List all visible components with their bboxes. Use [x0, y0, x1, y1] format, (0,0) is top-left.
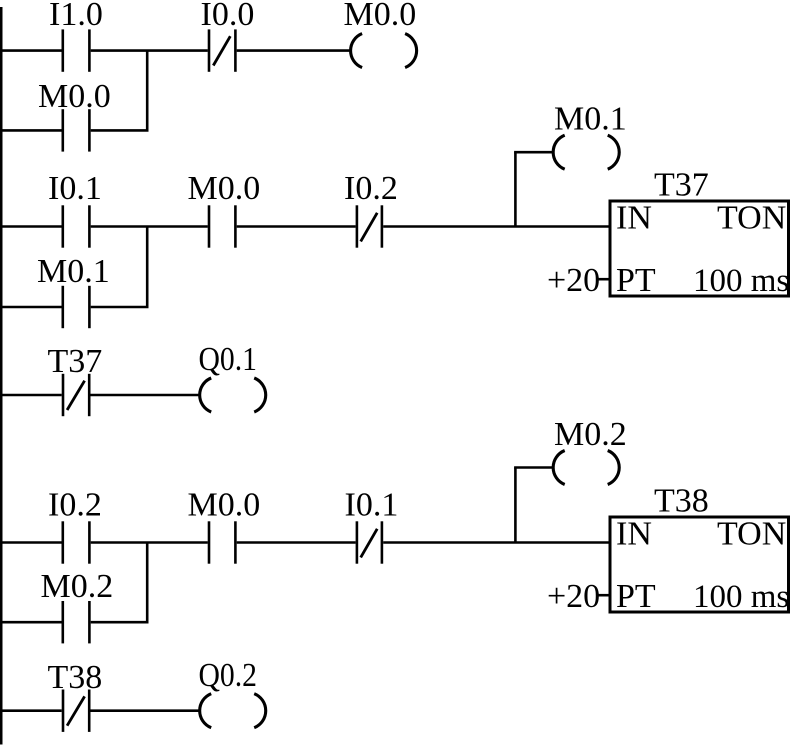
wire rung5 rail to T38: [0, 709, 62, 712]
svg-text:PT: PT: [616, 578, 656, 615]
junction vertical rung1: [146, 51, 149, 131]
svg-text:+20: +20: [547, 262, 600, 299]
coil M0.0: [351, 34, 417, 68]
contact M0.2 branch: [63, 601, 90, 643]
parallel branch wire M0.0: [0, 129, 62, 132]
svg-text:PT: PT: [616, 262, 656, 299]
svg-text:T38: T38: [654, 483, 709, 520]
wire T38 to coil Q0.2: [91, 709, 200, 712]
NC contact T37: [63, 374, 89, 416]
wire I0.0 to coil M0.0: [237, 49, 351, 52]
svg-text:I1.0: I1.0: [49, 0, 103, 33]
svg-text:TON: TON: [717, 516, 786, 553]
svg-text:M0.0: M0.0: [344, 0, 417, 33]
wire M0.1 branch to junction: [91, 306, 149, 309]
wire rung4 rail to I0.2: [0, 541, 62, 544]
svg-text:100 ms: 100 ms: [693, 579, 789, 615]
svg-text:M0.0: M0.0: [188, 170, 261, 207]
svg-text:IN: IN: [616, 200, 652, 237]
junction vertical rung4: [146, 543, 149, 623]
parallel branch wire M0.1: [0, 306, 62, 309]
wire M0.0 to I0.1: [237, 541, 356, 544]
svg-text:M0.2: M0.2: [554, 416, 627, 453]
wire rung3 rail to T37: [0, 394, 62, 397]
wire M0.2 branch to junction: [91, 621, 149, 624]
timer box T37: [610, 201, 789, 296]
wire M0.0 to I0.2: [237, 225, 356, 228]
svg-text:I0.1: I0.1: [345, 487, 399, 524]
svg-text:I0.0: I0.0: [201, 0, 255, 33]
parallel branch wire M0.2: [0, 621, 62, 624]
PT input stub rung4: [598, 594, 611, 597]
contact I0.2 rung4: [63, 521, 90, 563]
svg-text:I0.2: I0.2: [48, 487, 102, 524]
coil M0.1: [553, 135, 619, 169]
coil Q0.1: [200, 378, 266, 412]
svg-text:Q0.2: Q0.2: [199, 657, 258, 694]
NC contact T38: [63, 690, 89, 732]
wire rung2 rail to I0.1: [0, 225, 62, 228]
svg-text:Q0.1: Q0.1: [199, 341, 258, 378]
contact M0.0 branch: [63, 109, 90, 151]
branch-up vertical to coil M0.1: [514, 152, 517, 226]
svg-text:M0.1: M0.1: [554, 101, 627, 138]
svg-text:100 ms: 100 ms: [693, 263, 789, 299]
svg-text:M0.0: M0.0: [188, 487, 261, 524]
NC contact I0.0: [209, 29, 235, 71]
svg-text:T38: T38: [48, 659, 103, 696]
svg-text:T37: T37: [654, 167, 709, 204]
coil Q0.2: [200, 694, 266, 728]
branch-up vertical to coil M0.2: [514, 468, 517, 543]
PT input stub: [598, 278, 611, 281]
svg-text:I0.2: I0.2: [344, 170, 398, 207]
wire to coil M0.1: [514, 151, 553, 154]
wire M0.0 branch to junction: [91, 129, 149, 132]
svg-text:T37: T37: [48, 343, 103, 380]
contact M0.0 rung4: [209, 521, 235, 563]
svg-text:M0.2: M0.2: [41, 568, 114, 605]
contact M0.1 branch: [63, 286, 90, 328]
svg-text:IN: IN: [616, 516, 652, 553]
svg-text:+20: +20: [547, 578, 600, 615]
NC contact I0.1 rung4: [357, 521, 382, 563]
contact M0.0 rung2: [209, 205, 235, 247]
contact I0.1: [63, 205, 90, 247]
wire rung1 rail to I1.0: [0, 49, 62, 52]
wire I0.2 to M0.0 contact: [91, 541, 208, 544]
wire to coil M0.2: [514, 466, 553, 469]
contact I1.0: [63, 29, 90, 71]
NC contact I0.2: [357, 205, 382, 247]
wire I1.0 to I0.0: [91, 49, 208, 52]
junction vertical rung2: [146, 227, 149, 308]
svg-text:I0.1: I0.1: [48, 170, 102, 207]
svg-text:M0.1: M0.1: [37, 253, 110, 290]
svg-text:M0.0: M0.0: [38, 78, 111, 115]
left power rail: [0, 7, 3, 745]
svg-text:TON: TON: [717, 200, 786, 237]
coil M0.2: [553, 451, 619, 485]
wire I0.1 to T38 box: [383, 541, 610, 544]
wire I0.2 to T37 box: [383, 225, 610, 228]
wire I0.1 to M0.0 contact: [91, 225, 208, 228]
wire T37 to coil Q0.1: [91, 394, 200, 397]
timer box T38: [610, 517, 789, 612]
